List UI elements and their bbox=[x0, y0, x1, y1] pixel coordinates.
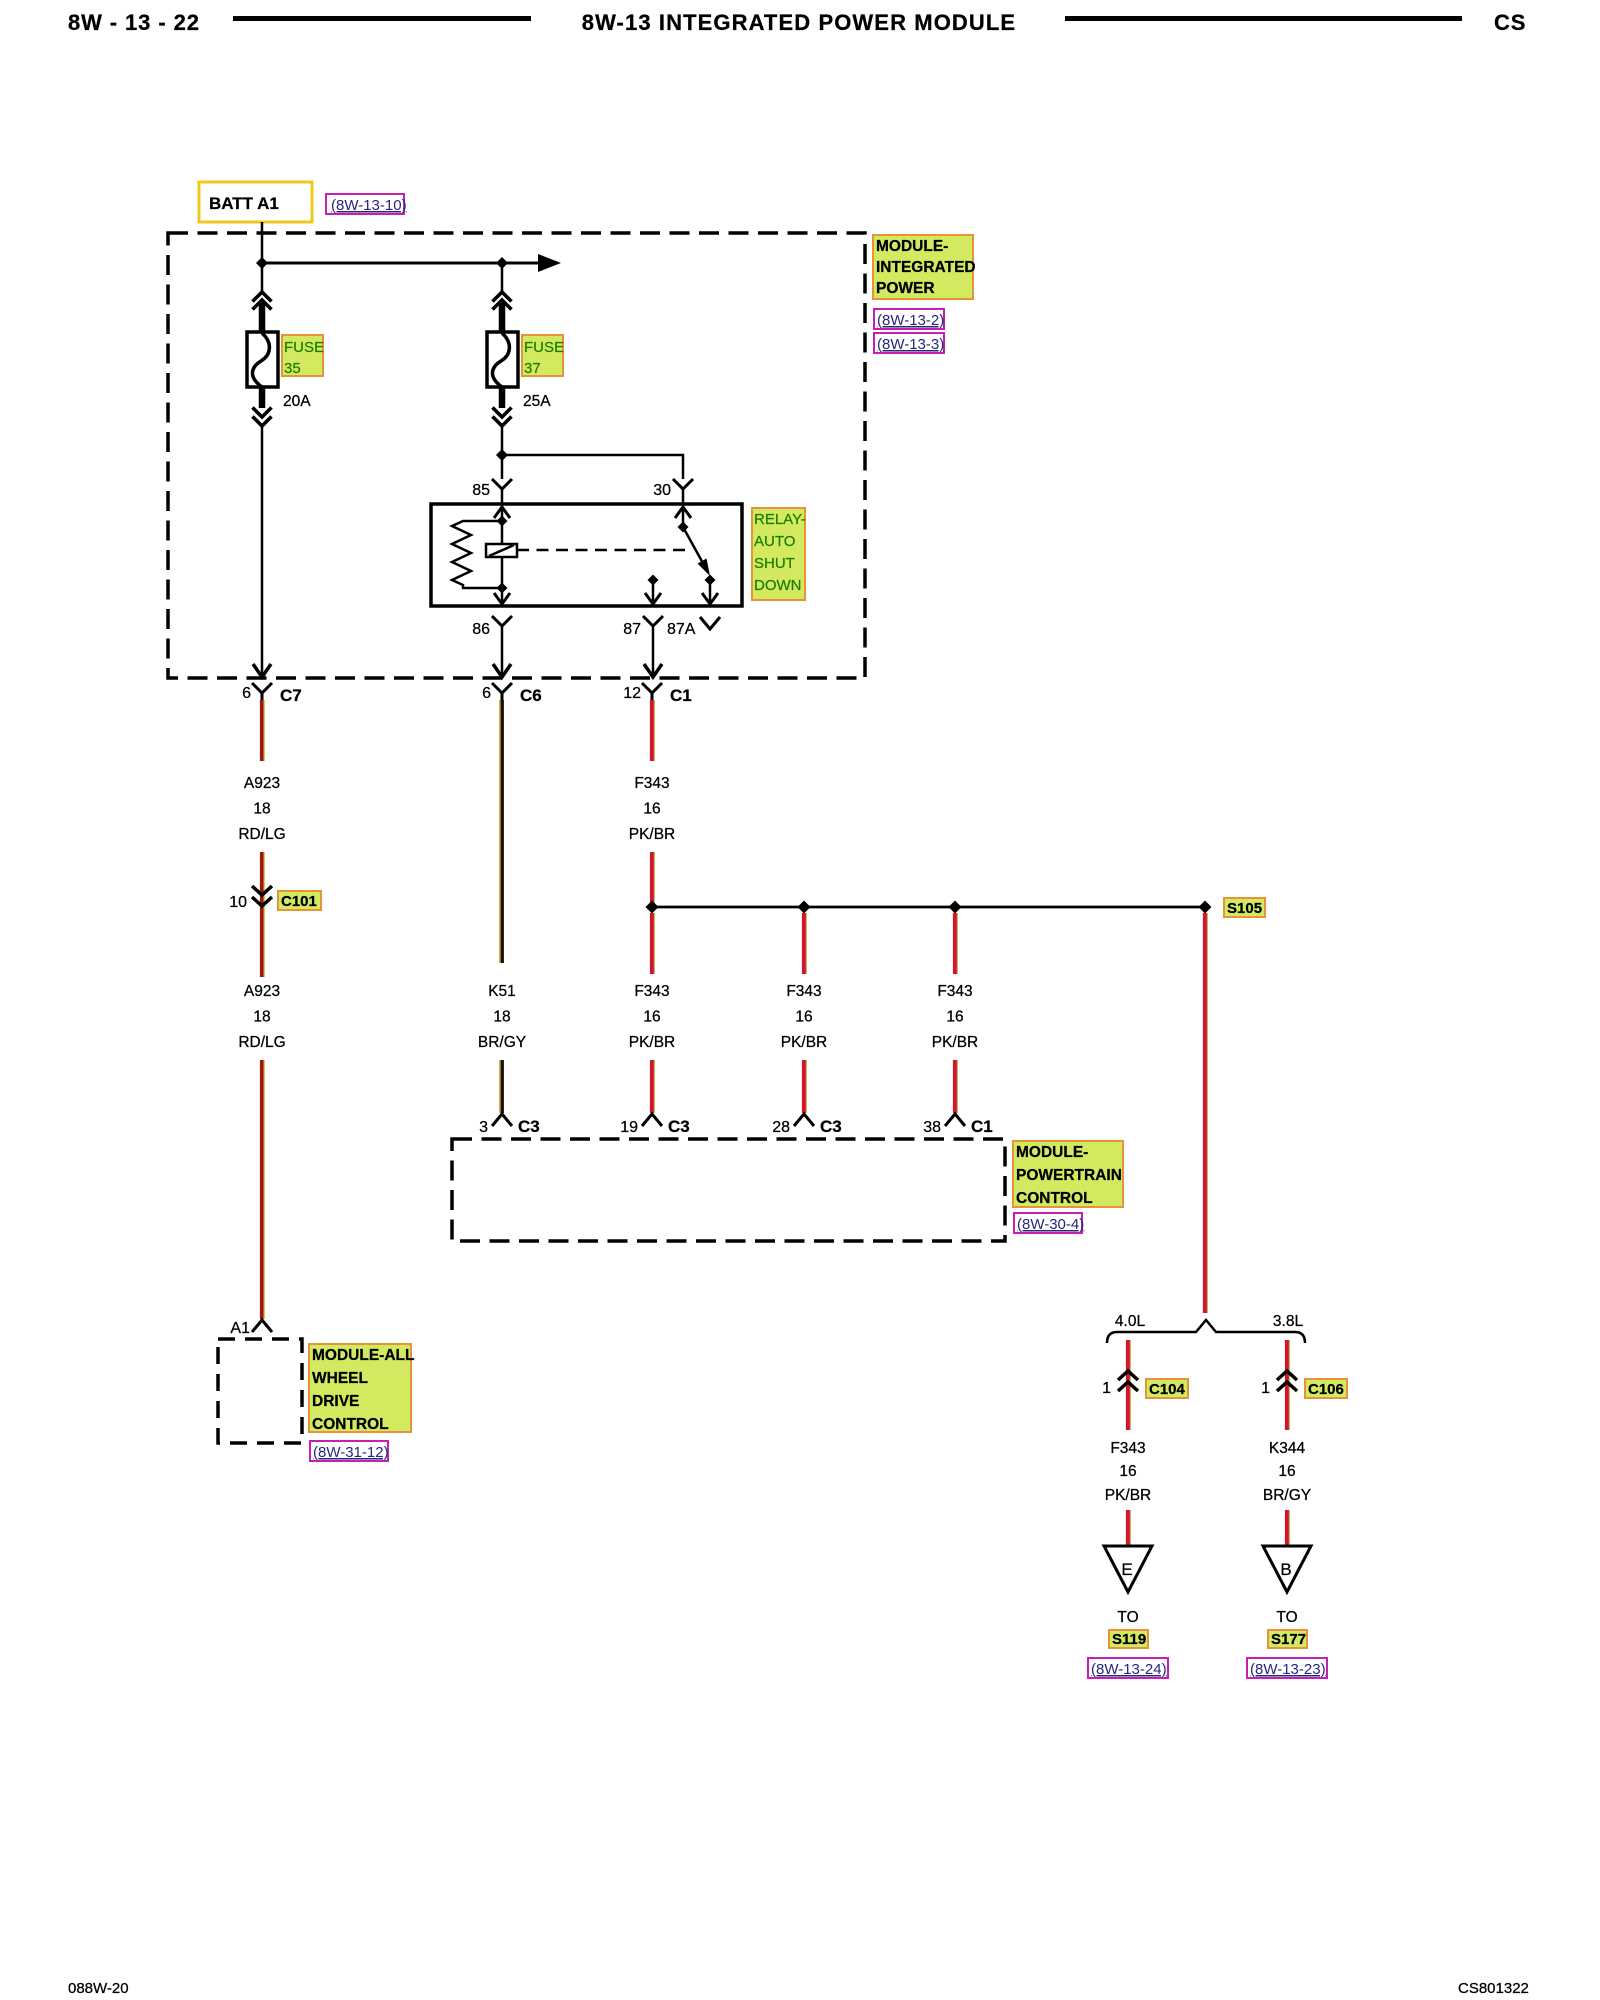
svg-text:FUSE: FUSE bbox=[524, 339, 564, 356]
fuse F37 connector chevrons bottom bbox=[493, 408, 512, 418]
svg-text:RELAY-: RELAY- bbox=[754, 511, 806, 528]
svg-text:DOWN: DOWN bbox=[754, 577, 802, 594]
relay coil pin 85 arrow bbox=[494, 507, 510, 518]
svg-text:3: 3 bbox=[479, 1119, 488, 1136]
link 8W-13-2 bbox=[874, 309, 944, 329]
splice bus wire bbox=[652, 906, 1205, 909]
svg-text:A1: A1 bbox=[230, 1320, 250, 1337]
svg-text:18: 18 bbox=[253, 801, 270, 818]
junction 87 bbox=[648, 575, 659, 586]
svg-text:SHUT: SHUT bbox=[754, 555, 795, 572]
svg-text:28: 28 bbox=[772, 1119, 790, 1136]
svg-text:F343: F343 bbox=[1110, 1440, 1145, 1457]
link 8W-31-12 bbox=[310, 1441, 388, 1461]
node junction above fuse 37 bbox=[496, 257, 508, 269]
wire fuse35 to C7 pin bbox=[261, 427, 264, 675]
svg-text:19: 19 bbox=[620, 1119, 638, 1136]
junction coil bottom bbox=[497, 583, 508, 594]
svg-text:16: 16 bbox=[643, 1009, 660, 1026]
off-page connector B bbox=[1263, 1546, 1311, 1592]
svg-text:38: 38 bbox=[923, 1119, 941, 1136]
junction 87A bbox=[705, 575, 716, 586]
off-page connector E bbox=[1104, 1546, 1152, 1592]
svg-text:6: 6 bbox=[482, 685, 491, 702]
brace 4.0L / 3.8L split bbox=[1107, 1320, 1305, 1343]
svg-text:18: 18 bbox=[493, 1009, 510, 1026]
fuse F35 body bbox=[247, 332, 278, 387]
relay switch pin 30 arrow bbox=[675, 507, 691, 518]
arrow into module boundary at C7 bbox=[253, 664, 271, 677]
svg-text:C3: C3 bbox=[820, 1117, 842, 1136]
svg-text:C6: C6 bbox=[520, 686, 542, 705]
svg-text:F343: F343 bbox=[634, 775, 669, 792]
wire K51 segment 1 bbox=[499, 700, 501, 963]
svg-text:35: 35 bbox=[284, 360, 301, 377]
svg-text:C101: C101 bbox=[281, 893, 317, 910]
wire K344 engine branch seg1 bbox=[1288, 1340, 1290, 1430]
label S105 bbox=[1224, 898, 1265, 917]
svg-text:RD/LG: RD/LG bbox=[238, 826, 285, 843]
svg-text:PK/BR: PK/BR bbox=[781, 1034, 828, 1051]
svg-text:10: 10 bbox=[229, 894, 247, 911]
svg-text:WHEEL: WHEEL bbox=[312, 1370, 368, 1387]
link (8W-13-24) bbox=[1088, 1658, 1168, 1678]
wire from BATT A1 down bbox=[261, 222, 264, 294]
svg-text:16: 16 bbox=[643, 801, 660, 818]
svg-text:DRIVE: DRIVE bbox=[312, 1393, 359, 1410]
relay switch blade bbox=[683, 527, 704, 565]
svg-text:C1: C1 bbox=[670, 686, 692, 705]
in-line connector C104 chevrons bbox=[1118, 1371, 1138, 1380]
fuse F35 connector chevrons bottom bbox=[253, 408, 272, 418]
svg-text:S105: S105 bbox=[1227, 900, 1262, 917]
svg-text:8W-13 INTEGRATED POWER MODULE: 8W-13 INTEGRATED POWER MODULE bbox=[582, 10, 1016, 35]
wire down to fuse 37 bbox=[501, 263, 504, 294]
svg-text:(8W-13-23): (8W-13-23) bbox=[1250, 1661, 1326, 1678]
svg-text:4.0L: 4.0L bbox=[1115, 1313, 1146, 1330]
svg-text:87: 87 bbox=[623, 621, 641, 638]
svg-text:F343: F343 bbox=[937, 983, 972, 1000]
svg-text:BR/GY: BR/GY bbox=[478, 1034, 526, 1051]
wire F343 from S105 down bbox=[1206, 913, 1208, 1313]
node junction relay split bbox=[496, 449, 508, 461]
svg-text:TO: TO bbox=[1117, 1609, 1138, 1626]
fuse F35 stem bottom bbox=[259, 387, 266, 408]
svg-text:POWER: POWER bbox=[876, 280, 935, 297]
svg-text:BR/GY: BR/GY bbox=[1263, 1487, 1311, 1504]
link 8W-13-10 bbox=[326, 194, 404, 214]
svg-text:088W-20: 088W-20 bbox=[68, 1980, 129, 1997]
junction switch pivot bbox=[678, 522, 689, 533]
relay coil vertical wire bbox=[501, 506, 504, 588]
svg-text:16: 16 bbox=[795, 1009, 812, 1026]
battery feed box BATT A1 bbox=[199, 182, 312, 222]
label MODULE-POWERTRAIN CONTROL bbox=[1013, 1141, 1123, 1207]
svg-text:PK/BR: PK/BR bbox=[629, 1034, 676, 1051]
pin 86 connector bbox=[492, 616, 512, 626]
svg-text:A923: A923 bbox=[244, 983, 280, 1000]
svg-text:MODULE-ALL: MODULE-ALL bbox=[312, 1347, 414, 1364]
junction branch 3 bbox=[949, 901, 962, 914]
svg-text:18: 18 bbox=[253, 1009, 270, 1026]
svg-text:FUSE: FUSE bbox=[284, 339, 324, 356]
relay resistor bbox=[452, 521, 502, 588]
link 8W-30-4 bbox=[1014, 1213, 1082, 1233]
node junction at feed split bbox=[256, 257, 268, 269]
pin 85 connector bbox=[492, 479, 512, 489]
svg-text:TO: TO bbox=[1276, 1609, 1297, 1626]
svg-text:K51: K51 bbox=[488, 983, 516, 1000]
module-powertrain control dashed boundary bbox=[452, 1139, 1005, 1241]
svg-text:(8W-13-10): (8W-13-10) bbox=[331, 197, 407, 214]
wire split horizontal to pin 30 bbox=[502, 455, 683, 479]
label C101 bbox=[278, 891, 321, 910]
svg-text:37: 37 bbox=[524, 360, 541, 377]
svg-text:PK/BR: PK/BR bbox=[1105, 1487, 1152, 1504]
svg-text:25A: 25A bbox=[523, 393, 551, 410]
svg-text:12: 12 bbox=[623, 685, 641, 702]
wire K344 engine branch seg2 bbox=[1288, 1510, 1290, 1549]
svg-text:AUTO: AUTO bbox=[754, 533, 795, 550]
module-all wheel drive control dashed box bbox=[218, 1339, 302, 1443]
label C106 bbox=[1305, 1379, 1347, 1398]
svg-text:CONTROL: CONTROL bbox=[312, 1416, 389, 1433]
svg-text:85: 85 bbox=[472, 482, 490, 499]
wire 87 to box edge bbox=[652, 580, 655, 603]
fuse F37 connector chevrons top bbox=[493, 292, 512, 302]
svg-text:1: 1 bbox=[1102, 1380, 1111, 1397]
svg-text:CS: CS bbox=[1494, 10, 1526, 35]
wire F343 engine branch seg1 bbox=[1129, 1340, 1131, 1430]
wire 87A to box edge bbox=[709, 580, 712, 603]
junction splice S105 bbox=[1199, 901, 1212, 914]
pin 87 connector bbox=[643, 616, 663, 626]
wire F343 segment 1 bbox=[653, 700, 655, 761]
svg-text:F343: F343 bbox=[786, 983, 821, 1000]
svg-text:PK/BR: PK/BR bbox=[629, 826, 676, 843]
svg-text:A923: A923 bbox=[244, 775, 280, 792]
wire feed bus horizontal with arrow bbox=[262, 262, 542, 265]
svg-text:20A: 20A bbox=[283, 393, 311, 410]
svg-text:CS801322: CS801322 bbox=[1458, 1980, 1529, 1997]
svg-text:INTEGRATED: INTEGRATED bbox=[876, 259, 976, 276]
label MODULE-INTEGRATED POWER bbox=[873, 235, 973, 299]
module-integrated power dashed boundary bbox=[168, 233, 865, 678]
arrow 86 into boundary bbox=[493, 664, 511, 677]
svg-text:1: 1 bbox=[1261, 1380, 1270, 1397]
svg-text:16: 16 bbox=[1119, 1463, 1136, 1480]
wire split down to pin 85 bbox=[501, 455, 504, 479]
svg-text:C3: C3 bbox=[668, 1117, 690, 1136]
wire A923 segment 2 bbox=[263, 852, 265, 977]
label MODULE-ALL WHEEL DRIVE CONTROL bbox=[309, 1344, 411, 1432]
svg-text:86: 86 bbox=[472, 621, 490, 638]
svg-text:E: E bbox=[1121, 1560, 1132, 1579]
wire F343 branch at x=804 bbox=[805, 913, 807, 974]
svg-text:16: 16 bbox=[946, 1009, 963, 1026]
arrow 87 into boundary bbox=[644, 664, 662, 677]
svg-text:16: 16 bbox=[1278, 1463, 1295, 1480]
fuse F37 stem top bbox=[499, 303, 506, 333]
link 8W-13-3 bbox=[874, 333, 944, 353]
svg-text:PK/BR: PK/BR bbox=[932, 1034, 979, 1051]
link (8W-13-23) bbox=[1247, 1658, 1327, 1678]
junction branch 2 bbox=[798, 901, 811, 914]
wire A923 segment 1 bbox=[263, 700, 265, 761]
svg-text:(8W-30-4): (8W-30-4) bbox=[1017, 1216, 1084, 1233]
fuse F37 body bbox=[487, 332, 518, 387]
svg-text:RD/LG: RD/LG bbox=[238, 1034, 285, 1051]
svg-text:F343: F343 bbox=[634, 983, 669, 1000]
label C104 bbox=[1146, 1379, 1188, 1398]
svg-text:C106: C106 bbox=[1308, 1381, 1344, 1398]
relay switch common wire bbox=[682, 506, 685, 527]
relay actuation dashed link bbox=[517, 549, 686, 552]
junction coil top bbox=[497, 516, 508, 527]
label FUSE 35 bbox=[282, 335, 323, 376]
svg-text:(8W-13-3): (8W-13-3) bbox=[877, 336, 944, 353]
pin 30 connector bbox=[673, 479, 693, 489]
svg-text:B: B bbox=[1280, 1560, 1291, 1579]
wire fuse37 to relay split bbox=[501, 427, 504, 455]
svg-text:(8W-13-24): (8W-13-24) bbox=[1091, 1661, 1167, 1678]
wire A923 segment 4 bbox=[263, 1060, 265, 1319]
svg-text:MODULE-: MODULE- bbox=[1016, 1144, 1088, 1161]
svg-text:C1: C1 bbox=[971, 1117, 993, 1136]
header rule left bbox=[233, 16, 531, 21]
junction at C1 branch bbox=[646, 901, 659, 914]
label FUSE 37 bbox=[522, 335, 563, 376]
svg-text:BATT A1: BATT A1 bbox=[209, 194, 279, 213]
wire F343 engine branch seg2 bbox=[1129, 1510, 1131, 1549]
svg-text:S119: S119 bbox=[1112, 1631, 1146, 1648]
svg-text:K344: K344 bbox=[1269, 1440, 1306, 1457]
svg-text:POWERTRAIN: POWERTRAIN bbox=[1016, 1167, 1122, 1184]
label RELAY-AUTO SHUT DOWN bbox=[752, 508, 805, 600]
svg-text:(8W-31-12): (8W-31-12) bbox=[313, 1444, 389, 1461]
wire F343 branch at x=652 bbox=[653, 913, 655, 974]
svg-text:8W - 13 - 22: 8W - 13 - 22 bbox=[68, 10, 200, 35]
svg-text:3.8L: 3.8L bbox=[1273, 1313, 1304, 1330]
header rule right bbox=[1065, 16, 1462, 21]
relay coil symbol bbox=[486, 544, 517, 557]
fuse F35 connector chevrons top bbox=[253, 292, 272, 302]
wire F343 branch at x=955 bbox=[956, 913, 958, 974]
svg-text:30: 30 bbox=[653, 482, 671, 499]
svg-text:C7: C7 bbox=[280, 686, 302, 705]
fuse F37 stem bottom bbox=[499, 387, 506, 408]
wire F343 segment 2 bbox=[653, 852, 655, 907]
svg-text:C3: C3 bbox=[518, 1117, 540, 1136]
wire 86 to box edge bbox=[501, 588, 504, 603]
svg-text:C104: C104 bbox=[1149, 1381, 1186, 1398]
fuse F35 stem top bbox=[259, 303, 266, 333]
svg-text:6: 6 bbox=[242, 685, 251, 702]
svg-text:S177: S177 bbox=[1271, 1631, 1306, 1648]
svg-text:(8W-13-2): (8W-13-2) bbox=[877, 312, 944, 329]
svg-text:CONTROL: CONTROL bbox=[1016, 1190, 1093, 1207]
in-line connector C101 chevrons bbox=[252, 886, 272, 895]
svg-text:MODULE-: MODULE- bbox=[876, 238, 948, 255]
wire K51 segment 2 bbox=[499, 1060, 501, 1113]
relay auto shut down box bbox=[431, 504, 742, 606]
in-line connector C106 chevrons bbox=[1277, 1371, 1297, 1380]
svg-text:87A: 87A bbox=[667, 621, 696, 638]
